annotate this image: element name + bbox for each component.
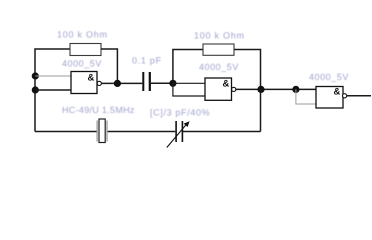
wire U2 lower input L bbox=[173, 83, 205, 96]
wire down from U2 output node to bottom rail bbox=[260, 89, 262, 131]
svg-text:&: & bbox=[88, 73, 95, 84]
wire C1 right plate to node bbox=[151, 82, 173, 84]
svg-text:4000_5V: 4000_5V bbox=[309, 72, 349, 82]
junction node U2 output bbox=[257, 86, 264, 93]
label 4000_5V (U3) bbox=[309, 72, 349, 82]
value label 0.1 pF (C1) bbox=[132, 56, 162, 66]
inverter U2 (4000_5V) box with & and output bubble bbox=[205, 78, 236, 100]
junction node on rail (U1 input A) bbox=[32, 72, 39, 79]
crystal X1 bbox=[97, 119, 107, 143]
svg-text:HC-49/U 1.5MHz: HC-49/U 1.5MHz bbox=[62, 105, 135, 115]
junction node between C1 and U2 bbox=[169, 80, 176, 87]
junction node U1 output / R1 feedback bbox=[114, 80, 121, 87]
wire U2 output to U3 input bbox=[236, 88, 316, 90]
wire bottom rail left section bbox=[35, 131, 97, 133]
wire U2 upper input bbox=[173, 82, 205, 84]
wire bottom rail right section bbox=[183, 131, 261, 133]
inverter U3 (4000_5V) box with & and output bubble bbox=[316, 87, 347, 109]
capacitor C1 plates bbox=[142, 72, 151, 91]
junction node U3 input bbox=[292, 86, 299, 93]
wire U3 output to right edge bbox=[347, 95, 371, 97]
wire R2 right end down to U2 output node bbox=[234, 50, 261, 90]
svg-text:4000_5V: 4000_5V bbox=[199, 62, 239, 72]
wire from R1 right end down to U1 output node bbox=[101, 49, 117, 83]
wire U1 output to C1 bbox=[102, 82, 143, 84]
wire U1 lower input stub bbox=[35, 89, 71, 91]
svg-text:4000_5V: 4000_5V bbox=[62, 59, 102, 69]
resistor R1 body bbox=[70, 44, 101, 56]
svg-text:[C]/3 pF/40%: [C]/3 pF/40% bbox=[150, 108, 210, 118]
value label [C]/3 pF/40% (C2) bbox=[150, 108, 210, 118]
wire U3 lower input L (gray) bbox=[296, 89, 316, 104]
wire node up to R2 left end bbox=[173, 50, 203, 84]
wire bottom rail mid section bbox=[108, 131, 176, 133]
variable capacitor C2 arrow bbox=[167, 121, 190, 147]
value label 100 k Ohm (R2) bbox=[194, 31, 245, 41]
svg-text:0.1 pF: 0.1 pF bbox=[132, 56, 162, 66]
inverter U1 (4000_5V) box with & and output bubble bbox=[71, 72, 101, 94]
svg-text:100 k Ohm: 100 k Ohm bbox=[57, 30, 108, 40]
variable capacitor C2 plates bbox=[175, 121, 183, 142]
wire U1 upper input stub (gray) bbox=[35, 75, 71, 77]
svg-text:&: & bbox=[223, 79, 230, 90]
resistor R2 body bbox=[203, 44, 234, 55]
junction node on rail (U1 input B) bbox=[32, 86, 39, 93]
svg-text:100 k Ohm: 100 k Ohm bbox=[194, 31, 245, 41]
wire left rail from R1 left end down to bottom rail bbox=[35, 49, 70, 132]
label 4000_5V (U1) bbox=[62, 59, 102, 69]
value label HC-49/U 1.5MHz (X1) bbox=[62, 105, 135, 115]
label 4000_5V (U2) bbox=[199, 62, 239, 72]
value label 100 k Ohm (R1) bbox=[57, 30, 108, 40]
svg-text:&: & bbox=[334, 87, 341, 98]
